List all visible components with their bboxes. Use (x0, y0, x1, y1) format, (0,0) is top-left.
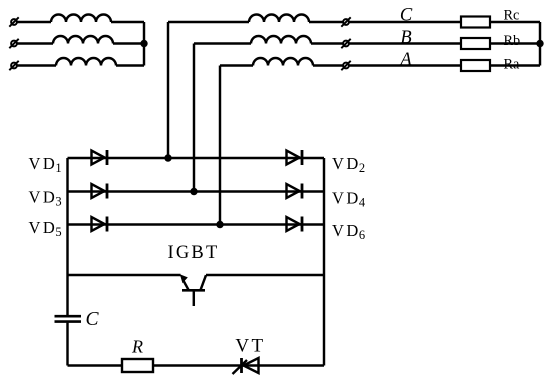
wire line C right segment (309, 21, 540, 23)
diode VD1 (92, 150, 108, 165)
diode VD3 (92, 184, 108, 199)
inductor coil L2 (middle-left winding) (53, 36, 113, 44)
diode VD5 (92, 217, 108, 232)
wire line A left segment (220, 64, 253, 66)
node junction dot row 1 / drop C (164, 154, 171, 161)
wire from coil L3 to star point (116, 64, 144, 66)
inductor coil L1 (top-left winding) (51, 15, 111, 23)
wire IGBT row right segment (206, 274, 324, 276)
wire bridge row 3 (68, 223, 325, 225)
terminal symbol on line C (341, 17, 350, 26)
svg-text:Rc: Rc (504, 8, 520, 24)
wire from terminal 3 to coil L3 (18, 64, 57, 66)
wire IGBT row left segment (68, 274, 181, 276)
capacitor C (55, 316, 82, 321)
wire line A right segment (313, 64, 540, 66)
wire bottom rail (68, 364, 325, 366)
wire right vertical bus (539, 22, 541, 66)
terminal phase input 3 (bottom-left) (9, 61, 18, 70)
node junction dot row 3 / drop A (216, 221, 223, 228)
wire bridge right vertical (323, 158, 325, 366)
wire vertical drop from line A to bridge row 3 (219, 66, 221, 225)
wire bridge left vertical (lower part) (66, 323, 68, 366)
inductor coil L4 (phase C winding) (249, 15, 309, 23)
terminal phase input 2 (middle-left) (9, 39, 18, 48)
inductor coil L3 (bottom-left winding) (56, 58, 116, 66)
inductor coil L6 (phase A winding) (253, 58, 313, 66)
svg-text:IGBT: IGBT (168, 243, 220, 263)
resistor R (122, 359, 153, 372)
diode VD6 (287, 217, 303, 232)
wire line B right segment (311, 42, 540, 44)
wire line C left segment (168, 21, 249, 23)
svg-text:R: R (131, 337, 143, 357)
svg-text:A: A (398, 50, 412, 70)
wire vertical drop from line B to bridge row 2 (193, 44, 195, 192)
svg-text:Ra: Ra (504, 57, 521, 73)
wire vertical drop from line C to bridge row 1 (167, 22, 169, 158)
wire from terminal 2 to coil L2 (18, 42, 54, 44)
diode VD4 (287, 184, 303, 199)
wire from terminal 1 to coil L1 (18, 21, 52, 23)
node right bus junction dot (536, 40, 543, 47)
terminal symbol on line B (341, 39, 350, 48)
wire bridge row 2 (68, 190, 325, 192)
terminal phase input 1 (top-left) (9, 17, 18, 26)
svg-text:C: C (400, 6, 413, 26)
wire from coil L2 to star point (113, 42, 144, 44)
wire from coil L1 to star point (111, 21, 144, 23)
terminal symbol on line A (341, 61, 350, 70)
resistor Rb (461, 38, 490, 49)
node junction dot row 2 / drop B (190, 188, 197, 195)
thyristor VT (233, 358, 259, 374)
svg-text:C: C (86, 309, 100, 330)
inductor coil L5 (phase B winding) (251, 36, 311, 44)
wire line B left segment (194, 42, 251, 44)
diode VD2 (287, 150, 303, 165)
resistor Rc (461, 17, 490, 28)
node star point junction dot (140, 40, 147, 47)
wire star-point vertical bus (143, 22, 145, 66)
wire bridge left vertical (upper part) (66, 158, 68, 315)
svg-text:Rb: Rb (504, 33, 521, 49)
svg-text:VT: VT (235, 336, 265, 357)
svg-text:B: B (400, 28, 411, 48)
transistor IGBT symbol (180, 274, 206, 306)
resistor Ra (461, 60, 490, 71)
wire bridge row 1 (68, 157, 325, 159)
